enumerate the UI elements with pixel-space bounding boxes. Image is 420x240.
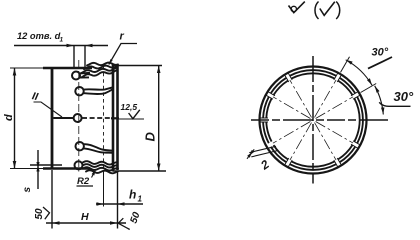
slot end hole row3 middle (53, 117, 73, 119)
svg-text:30°: 30° (372, 47, 389, 59)
slot edges in end view (260, 73, 361, 168)
centerline of slot end holes (78, 60, 80, 172)
dimension 12 holes d1 (14, 45, 108, 47)
svg-text:R2: R2 (77, 176, 90, 187)
angular dimension 30deg #2 (375, 86, 384, 115)
dimension D (113, 65, 162, 67)
slot width 2 callout (249, 146, 276, 152)
slot depth line (103, 66, 105, 168)
svg-text:s: s (22, 187, 33, 193)
svg-text:30°: 30° (394, 89, 414, 104)
svg-text:12 отв. d: 12 отв. d (17, 31, 61, 41)
svg-text:1: 1 (60, 37, 64, 44)
radial spokes (273, 80, 353, 160)
dimension H (51, 170, 53, 229)
left sectional view of slotted sleeve (3, 31, 166, 230)
svg-text:50: 50 (34, 208, 45, 220)
leader r (109, 44, 137, 65)
slot end hole row4 (76, 142, 84, 150)
roughness mark 50 on right end face (118, 218, 130, 229)
slot end hole row2 (75, 87, 83, 95)
bracketed check symbol (315, 2, 319, 20)
dimension s (30, 164, 62, 166)
surface finish symbol (no material removal) (289, 2, 305, 13)
svg-text:H: H (81, 211, 89, 223)
svg-text:D: D (143, 132, 158, 142)
slot end hole row1 (72, 72, 80, 80)
svg-text:12,5: 12,5 (121, 102, 138, 112)
svg-text:h: h (129, 188, 136, 202)
svg-text:r: r (120, 31, 125, 43)
dimension h1 (96, 203, 143, 205)
slot end hole row5 (75, 161, 83, 169)
dimension d (14, 68, 16, 169)
angular dimension 30deg #1 (341, 57, 350, 73)
right end view circle (247, 47, 414, 184)
roughness mark 50 on left end face (43, 207, 50, 219)
svg-text:1: 1 (138, 195, 143, 204)
centerlines (251, 119, 388, 121)
svg-text:d: d (3, 114, 15, 121)
roughness 12,5 (118, 118, 145, 120)
